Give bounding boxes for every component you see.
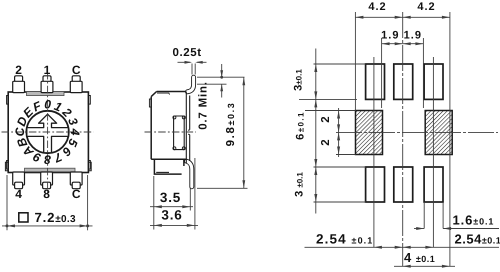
land pad bottom 3: [424, 167, 443, 202]
front view: rotary switch body: [5, 92, 91, 173]
land pad top 1: [366, 64, 385, 99]
svg-text:2.54 ±0.1: 2.54 ±0.1: [316, 232, 373, 247]
bottom recessed band: [25, 168, 76, 172]
svg-text:4 ±0.1: 4 ±0.1: [404, 250, 435, 265]
terminal top (metal, double stroke): [188, 77, 194, 92]
pin 1 (top): [41, 76, 53, 93]
side view centerline: [145, 131, 197, 133]
land pad top 2: [394, 64, 413, 99]
svg-text:C: C: [13, 127, 27, 136]
svg-text:4.2: 4.2: [368, 1, 386, 13]
terminal bottom J-lead (metal, double stroke): [187, 161, 192, 187]
svg-text:2: 2: [15, 63, 22, 77]
svg-text:9.8±0.3: 9.8±0.3: [225, 102, 237, 147]
land pattern arrowheads: [314, 16, 451, 268]
svg-text:4: 4: [15, 187, 22, 201]
land pattern dimension texts: [293, 1, 500, 265]
pin C (top): [70, 76, 82, 93]
centerlines front view: [2, 72, 94, 193]
svg-text:1.9: 1.9: [404, 30, 422, 42]
lower housing box: [154, 159, 184, 174]
left small tab: [149, 99, 151, 107]
svg-text:4: 4: [68, 128, 82, 136]
svg-text:0.7 Min.: 0.7 Min.: [197, 81, 209, 130]
land pattern centerlines: [336, 12, 498, 266]
land pattern extension lines: [299, 12, 499, 266]
svg-text:8: 8: [43, 187, 50, 201]
land pad bottom 1: [366, 167, 385, 202]
svg-text:3±0.1: 3±0.1: [293, 69, 305, 91]
dimension 0.7 Min and 9.8: [197, 64, 248, 188]
pin 8 (bottom): [41, 172, 53, 189]
svg-text:C: C: [72, 63, 81, 77]
dial characters 0-F: [13, 98, 82, 167]
svg-text:1.6±0.1: 1.6±0.1: [453, 212, 495, 227]
svg-text:0: 0: [44, 98, 51, 112]
svg-text:3.6: 3.6: [161, 208, 182, 223]
svg-text:1.9: 1.9: [381, 30, 399, 42]
svg-text:7.2±0.3: 7.2±0.3: [35, 210, 76, 225]
top recessed band: [27, 92, 65, 96]
svg-text:1: 1: [44, 63, 51, 77]
svg-text:C: C: [72, 187, 81, 201]
land pad top 3: [424, 64, 443, 99]
dimensions 3.5 / 3.6: [150, 158, 198, 230]
svg-text:3 ±0.1: 3 ±0.1: [294, 172, 306, 197]
rotor slot: [174, 116, 185, 150]
svg-text:2: 2: [320, 116, 332, 122]
land pad bottom 2: [394, 167, 413, 202]
hatched common pad right: [425, 111, 452, 155]
svg-text:4.2: 4.2: [417, 1, 435, 13]
rotor arrow cross: [27, 114, 69, 153]
pin labels: [15, 63, 81, 201]
svg-text:6±0.1: 6±0.1: [295, 111, 307, 140]
terminal plate right: [186, 92, 189, 163]
svg-text:8: 8: [44, 152, 51, 166]
hatched common pad left: [356, 111, 383, 155]
dimension 7.2 (front width): [2, 175, 93, 230]
dial circle: [26, 111, 68, 153]
pin 2 (top): [13, 76, 25, 93]
pin 4 (bottom): [13, 172, 25, 189]
svg-text:2: 2: [320, 139, 332, 145]
svg-text:2.54±0.1: 2.54±0.1: [455, 232, 500, 247]
side view body: [149, 92, 189, 175]
dimension 0.25t: [178, 62, 207, 74]
pin C (bottom): [70, 172, 82, 189]
svg-text:3.5: 3.5: [160, 190, 181, 205]
svg-text:0.25t: 0.25t: [173, 47, 202, 59]
